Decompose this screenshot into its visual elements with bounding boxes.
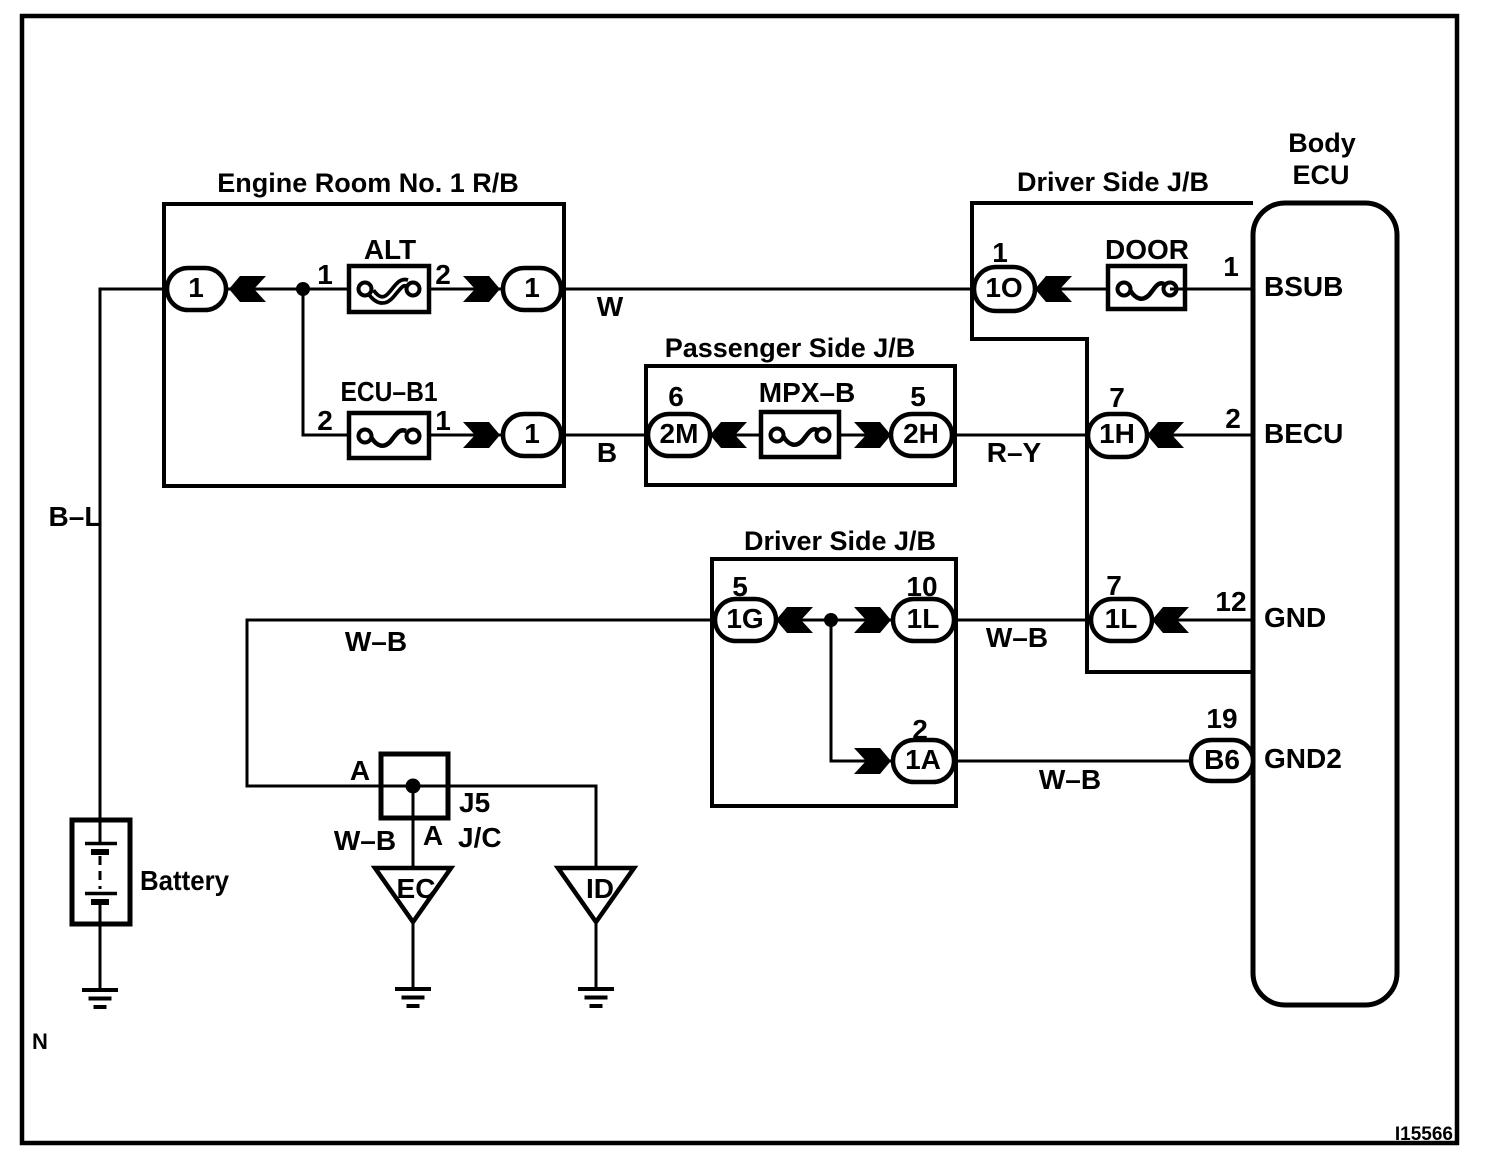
- ground triangle EC: [375, 868, 451, 922]
- arrow left at 1L right: [1152, 607, 1189, 633]
- svg-text:19: 19: [1206, 703, 1237, 734]
- wire inside passenger J/B: [710, 434, 893, 437]
- svg-text:2: 2: [435, 259, 451, 290]
- Passenger Side J/B box: [646, 366, 955, 485]
- svg-text:ECU: ECU: [1292, 160, 1349, 190]
- svg-text:BECU: BECU: [1264, 418, 1343, 449]
- wire DOOR to BSUB: [1170, 288, 1253, 291]
- svg-text:N: N: [32, 1029, 48, 1054]
- svg-text:Battery: Battery: [140, 865, 229, 896]
- svg-text:I15566: I15566: [1395, 1124, 1453, 1145]
- svg-text:ID: ID: [586, 873, 614, 904]
- svg-text:1G: 1G: [726, 603, 763, 634]
- svg-text:A: A: [350, 755, 370, 786]
- svg-text:1O: 1O: [985, 272, 1022, 303]
- connector oval 1 (left): [167, 268, 226, 310]
- connector oval 1L (right): [1091, 599, 1152, 641]
- svg-text:1L: 1L: [907, 603, 940, 634]
- svg-text:B6: B6: [1204, 744, 1240, 775]
- connector oval 1O: [974, 267, 1035, 311]
- ground below ID: [578, 989, 614, 1006]
- connector oval 2H: [891, 414, 952, 456]
- svg-text:DOOR: DOOR: [1105, 234, 1189, 265]
- arrow right before 1L lower: [854, 607, 891, 633]
- svg-text:1: 1: [524, 418, 540, 449]
- fuse ALT: [349, 266, 429, 312]
- svg-text:MPX–B: MPX–B: [759, 377, 855, 408]
- svg-text:2: 2: [912, 714, 928, 745]
- svg-text:1: 1: [1223, 251, 1239, 282]
- svg-text:ALT: ALT: [364, 234, 416, 265]
- node dot lower J/B: [824, 613, 838, 627]
- wire R-Y to 1H: [955, 434, 1088, 437]
- Body ECU box: [1253, 203, 1397, 1005]
- svg-text:1: 1: [992, 237, 1008, 268]
- wire GND2 row from 1A to B6: [956, 760, 1191, 763]
- svg-text:W–B: W–B: [986, 622, 1048, 653]
- connector oval 1 (right row2): [503, 414, 561, 456]
- connector oval 2M: [648, 414, 710, 456]
- wire row1 inside engine room: [226, 288, 365, 291]
- arrow left at 1H: [1147, 422, 1184, 448]
- svg-text:W–B: W–B: [334, 825, 396, 856]
- arrow right before 2H: [854, 422, 891, 448]
- connector oval 1 (right top): [503, 268, 561, 310]
- arrow right before oval 1: [463, 276, 500, 302]
- wire battery to ground: [99, 924, 102, 990]
- svg-text:Driver Side J/B: Driver Side J/B: [744, 526, 936, 556]
- arrow left at 1G: [776, 607, 813, 633]
- svg-text:Engine Room No. 1 R/B: Engine Room No. 1 R/B: [217, 168, 519, 198]
- fuse MPX-B: [761, 412, 839, 457]
- wire W-B between J/Bs row3: [954, 619, 1091, 622]
- wire BECU row: [1147, 434, 1253, 437]
- svg-text:ECU–B1: ECU–B1: [341, 376, 438, 407]
- arrow left at oval 1: [229, 276, 266, 302]
- wire W to driver side J/B: [564, 288, 974, 291]
- arrow right before oval 1 row2: [463, 422, 500, 448]
- svg-text:GND: GND: [1264, 602, 1326, 633]
- svg-text:W–B: W–B: [1039, 764, 1101, 795]
- svg-text:Driver Side J/B: Driver Side J/B: [1017, 167, 1209, 197]
- svg-text:Body: Body: [1288, 128, 1356, 158]
- fuse ECU-B1: [349, 413, 429, 458]
- ground below EC: [395, 989, 431, 1006]
- svg-text:W: W: [597, 291, 624, 322]
- svg-text:1: 1: [524, 272, 540, 303]
- svg-text:Passenger Side J/B: Passenger Side J/B: [665, 333, 916, 363]
- svg-text:GND2: GND2: [1264, 743, 1342, 774]
- connector oval 1H: [1088, 414, 1147, 457]
- svg-text:EC: EC: [397, 873, 436, 904]
- svg-text:A: A: [423, 820, 443, 851]
- connector oval 1A: [893, 740, 954, 782]
- connector oval B6: [1191, 740, 1253, 781]
- svg-text:J5: J5: [459, 787, 490, 818]
- arrow right before 1A: [854, 748, 891, 774]
- ground triangle ID: [558, 868, 634, 922]
- svg-text:6: 6: [668, 381, 684, 412]
- svg-text:R–Y: R–Y: [987, 437, 1042, 468]
- svg-text:5: 5: [732, 571, 748, 602]
- svg-text:W–B: W–B: [345, 626, 407, 657]
- svg-text:1A: 1A: [905, 744, 941, 775]
- svg-text:1: 1: [435, 405, 451, 436]
- wire GND row: [1152, 619, 1253, 622]
- wire EC to ground: [412, 922, 415, 989]
- ground below battery: [82, 990, 118, 1007]
- wire J5 down to EC: [412, 786, 415, 868]
- svg-text:2: 2: [317, 405, 333, 436]
- svg-text:1: 1: [317, 259, 333, 290]
- svg-text:10: 10: [906, 571, 937, 602]
- Driver Side J/B (top) box outline: [972, 203, 1253, 672]
- wire W-B from 1G to J5: [247, 620, 712, 786]
- connector oval 1L (lower): [893, 599, 954, 641]
- svg-text:1L: 1L: [1105, 603, 1138, 634]
- arrow left at 1O: [1035, 276, 1072, 302]
- fuse DOOR: [1108, 266, 1185, 309]
- wire inside lower J/B row3: [776, 619, 893, 622]
- Driver Side J/B (lower) box: [712, 559, 956, 806]
- node dot in J5: [406, 779, 421, 794]
- battery: [72, 820, 130, 924]
- svg-text:2H: 2H: [903, 418, 939, 449]
- arrow left at 2M: [710, 422, 747, 448]
- wire B-L from engine room left to battery: [100, 289, 167, 845]
- connector oval 1G: [715, 599, 776, 641]
- svg-text:B–L: B–L: [49, 501, 102, 532]
- wire B to passenger side J/B: [564, 434, 648, 437]
- node junction dot: [296, 282, 310, 296]
- junction J5 J/C box: [381, 754, 448, 818]
- wire ID to ground: [595, 922, 598, 989]
- Engine Room No. 1 R/B box: [164, 204, 564, 486]
- svg-text:BSUB: BSUB: [1264, 271, 1343, 302]
- wire branch to 1A: [831, 620, 893, 761]
- svg-text:5: 5: [910, 381, 926, 412]
- svg-text:2M: 2M: [660, 418, 699, 449]
- svg-text:B: B: [597, 437, 617, 468]
- wire through J5 to ID: [381, 786, 596, 868]
- svg-text:2: 2: [1225, 403, 1241, 434]
- svg-text:1H: 1H: [1099, 418, 1135, 449]
- svg-text:7: 7: [1106, 570, 1122, 601]
- wire branch to ECU-B1: [303, 289, 365, 435]
- svg-text:J/C: J/C: [458, 822, 502, 853]
- svg-text:1: 1: [188, 272, 204, 303]
- svg-text:12: 12: [1215, 586, 1246, 617]
- svg-text:7: 7: [1109, 382, 1125, 413]
- wire from 1O to DOOR fuse: [1035, 288, 1124, 291]
